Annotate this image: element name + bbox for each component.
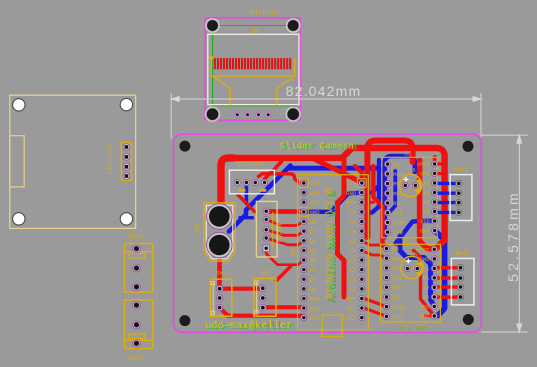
wire blue U2 inner	[388, 171, 396, 213]
svg-text:MS2: MS2	[393, 182, 403, 188]
wire red mid weave	[338, 160, 345, 297]
svg-text:5V: 5V	[349, 209, 356, 216]
svg-text:26.12.2025: 26.12.2025	[398, 326, 428, 332]
svg-text:D6: D6	[310, 257, 317, 264]
wire red U2 mid vertical second	[417, 160, 422, 172]
svg-text:DISPLEY: DISPLEY	[251, 10, 279, 17]
capacitor C U3 plus mark	[406, 259, 411, 264]
main board outline	[174, 134, 482, 332]
svg-text:U6: U6	[409, 168, 415, 174]
wire blue top bus	[288, 168, 385, 237]
wire blue U3 to U2 VDD	[396, 221, 435, 244]
left board mounting hole H3	[13, 213, 25, 225]
wire red VMOT stub	[433, 157, 437, 164]
svg-text:82.042mm: 82.042mm	[286, 83, 362, 99]
svg-text:STEP: STEP	[392, 305, 405, 311]
svg-text:MS1: MS1	[393, 172, 403, 178]
svg-text:A1: A1	[423, 181, 429, 187]
svg-text:SW2A: SW2A	[128, 355, 143, 362]
module U2 right pads	[432, 161, 438, 234]
main board mounting hole M3	[179, 315, 190, 326]
wire red top bus	[229, 148, 445, 248]
wire red A-pins to U3 upper	[362, 241, 387, 249]
svg-text:B2: B2	[423, 210, 429, 216]
module U1 right pin labels	[346, 180, 357, 322]
svg-text:D8: D8	[310, 276, 317, 283]
wire red DISPLEY1 to CN1	[221, 158, 233, 205]
svg-text:D9: D9	[310, 286, 317, 293]
module U2 left pin labels	[393, 162, 406, 236]
svg-text:DISPLEY2: DISPLEY2	[107, 143, 114, 174]
wire blue GND bus	[304, 186, 379, 212]
left board mounting hole H4	[120, 213, 132, 225]
module U1 GND pin square	[299, 207, 308, 216]
svg-text:MS1: MS1	[392, 256, 402, 262]
wire blue right vertical to MOT2 GND	[434, 230, 444, 316]
capacitor C U2 plus mark	[403, 177, 408, 182]
svg-text:B1: B1	[423, 191, 429, 197]
capacitor C U2 outline	[399, 174, 421, 196]
wire red SW1 pin1 to SW2 pin1	[221, 287, 263, 291]
svg-text:D13: D13	[346, 315, 356, 322]
svg-text:GND: GND	[310, 209, 321, 216]
wire red CN1 to SW1 pin1	[217, 258, 222, 288]
wire red bus to VIN diagonal	[312, 158, 362, 183]
svg-text:A1: A1	[423, 267, 429, 273]
wire red SW2 pin3 to D11	[264, 305, 304, 309]
display flex cable outline	[211, 59, 294, 105]
switch SW2A pads	[133, 301, 141, 347]
capacitor C U3 outline	[401, 256, 423, 278]
switch SW1A outline	[125, 244, 153, 293]
svg-text:GND: GND	[420, 172, 430, 178]
svg-text:EN: EN	[393, 162, 399, 168]
main board mounting hole M2	[463, 141, 474, 152]
capacitor C U3 pads	[404, 266, 420, 272]
display module green courtyard	[213, 26, 298, 106]
wire red DISPLEY1 diagonal	[238, 195, 255, 212]
svg-text:D12: D12	[310, 315, 320, 322]
wire blue fragment left of ENCODER	[240, 216, 253, 219]
svg-text:ENCODER: ENCODER	[277, 218, 284, 242]
svg-text:Slider Camera: Slider Camera	[279, 141, 354, 152]
svg-text:U3: U3	[402, 238, 410, 245]
svg-text:3V3: 3V3	[346, 305, 356, 312]
svg-text:D10: D10	[310, 296, 321, 303]
svg-text:RXD: RXD	[310, 190, 321, 197]
svg-text:MS3: MS3	[392, 276, 402, 282]
svg-text:U5: U5	[411, 252, 417, 258]
svg-text:SW1A: SW1A	[128, 234, 143, 241]
wire red SW2 corner diagonal	[276, 267, 290, 281]
wire blue DISPLEY1 pad2 stub	[245, 186, 249, 204]
module U1 left pads TXD-D12	[301, 180, 307, 321]
svg-text:GND: GND	[346, 190, 357, 197]
svg-text:MOT1: MOT1	[454, 166, 468, 173]
svg-text:A2: A2	[423, 286, 429, 292]
svg-text:RST: RST	[393, 201, 403, 207]
connector CN1 pad2	[207, 232, 233, 258]
wire blue bus to CN1 diagonal	[229, 166, 291, 232]
switch SW2 pads	[260, 285, 267, 311]
svg-text:VDD: VDD	[420, 305, 430, 311]
switch SW2A outline	[125, 300, 153, 349]
connector DISPLEY1 index marks	[239, 189, 267, 192]
svg-text:A7: A7	[349, 219, 356, 226]
module U2 outline	[382, 157, 437, 237]
wire red ENCODER pin4 to D4	[266, 238, 304, 245]
module U1 Arduino outline	[298, 175, 369, 330]
svg-text:A2: A2	[423, 200, 429, 206]
wire blue arch over U2	[385, 156, 415, 237]
svg-text:SLP: SLP	[392, 295, 402, 301]
svg-text:DISPLEY1: DISPLEY1	[238, 161, 266, 168]
module U3 outline	[381, 244, 441, 322]
dimension 82.042mm line	[171, 93, 481, 139]
capacitor C U2 pads	[402, 183, 418, 189]
svg-text:D5: D5	[310, 248, 317, 255]
module U1 right pads VIN-D13	[359, 180, 365, 321]
svg-text:A2: A2	[349, 267, 356, 274]
svg-text:DIR: DIR	[392, 315, 402, 321]
svg-text:SW2: SW2	[260, 269, 271, 276]
wire red SW1 pin3 to D12	[220, 308, 304, 316]
connector MOT1 pads	[456, 180, 462, 215]
module U3 right pin labels	[417, 248, 431, 321]
svg-text:U2: U2	[404, 151, 412, 158]
wire blue U3 inner loop	[400, 236, 434, 306]
module U1 pin1 square TXD	[299, 179, 308, 188]
module U3 left pads	[384, 246, 390, 320]
svg-text:VIN: VIN	[346, 180, 356, 187]
svg-text:A4: A4	[349, 248, 356, 255]
svg-text:D2: D2	[310, 219, 317, 226]
svg-text:GND: GND	[420, 229, 430, 235]
module U1 left pin labels	[310, 180, 321, 322]
module U3 left pin labels	[392, 247, 405, 321]
wire red col vertical right of U1	[373, 166, 386, 249]
wire blue MOT1 bars	[435, 183, 459, 212]
left board mounting hole H1	[13, 99, 25, 111]
svg-text:VDD: VDD	[420, 219, 430, 225]
svg-text:SW1: SW1	[216, 270, 227, 277]
wire red U2 GND stub	[435, 172, 445, 175]
wire red MOT2 bars	[436, 268, 460, 297]
wire blue col vertical to 5V	[362, 160, 379, 213]
svg-text:CN1: CN1	[194, 222, 201, 233]
svg-text:A6: A6	[349, 228, 356, 235]
display mounting pad bottom1	[206, 107, 220, 121]
wire red VIN corner	[355, 166, 362, 181]
svg-text:RST: RST	[346, 199, 357, 206]
connector CN1 pad1	[207, 204, 233, 230]
left board notch cutout	[10, 136, 24, 187]
svg-text:D4: D4	[310, 238, 317, 245]
connector ENCODER outline	[256, 201, 277, 257]
module U1 pin30 square VIN	[357, 179, 366, 188]
display red segment bars	[214, 58, 291, 69]
connector DISPLEY2 pins 1-4	[123, 144, 130, 180]
wire red ENCODER pin3 to D3	[266, 230, 304, 236]
connector MOT2 pads	[457, 265, 463, 301]
svg-text:REF: REF	[346, 296, 356, 303]
svg-text:GND: GND	[420, 314, 430, 320]
wire red DISPLEY1 pad4 to bus	[265, 162, 282, 180]
display mounting pad bottom2	[286, 107, 300, 121]
main board mounting hole M4	[463, 314, 474, 325]
connector MOT2 outline	[451, 258, 474, 305]
display glass outline U4	[208, 34, 299, 104]
svg-text:A5: A5	[349, 238, 356, 245]
left board mounting hole H2	[120, 98, 132, 110]
svg-text:U1: U1	[291, 249, 297, 255]
wire red U2 inner vertical	[420, 160, 435, 249]
wire red RST stub	[362, 201, 374, 204]
svg-text:STEP: STEP	[393, 221, 406, 227]
svg-text:udo—max@keller: udo—max@keller	[205, 320, 292, 332]
switch SW1 pads	[216, 285, 223, 311]
svg-text:A1: A1	[349, 276, 356, 283]
svg-text:TXD: TXD	[310, 180, 321, 187]
connector MOT1 outline	[450, 175, 472, 221]
switch SW2 outline	[254, 279, 276, 317]
display mounting hole top1	[206, 19, 219, 32]
wire red U3 GND stub	[425, 314, 434, 317]
module U2 right pin labels	[417, 162, 431, 235]
module U3 right pads	[431, 246, 437, 319]
main board mounting hole M1	[179, 141, 190, 152]
module U2 left pads	[385, 161, 391, 235]
connector ENCODER pads	[263, 208, 270, 251]
svg-text:A3: A3	[349, 257, 356, 264]
connector DISPLEY1 outline	[229, 170, 274, 194]
wire red ENCODER pin5 down	[266, 248, 304, 265]
svg-text:RST: RST	[392, 286, 402, 292]
svg-text:RST: RST	[310, 199, 321, 206]
svg-text:DIR: DIR	[393, 230, 403, 236]
wire red D-pins to U3 STEP DIR	[364, 298, 387, 306]
svg-text:52.578mm: 52.578mm	[505, 190, 521, 282]
connector CN1 body	[204, 203, 235, 261]
connector DISPLEY1 pads	[234, 179, 268, 185]
svg-text:EN: EN	[392, 247, 398, 253]
svg-text:VMOT: VMOT	[417, 162, 431, 168]
svg-text:VMOT: VMOT	[417, 248, 431, 254]
dimension 52.578mm line	[481, 135, 527, 332]
display origin dot	[209, 56, 213, 60]
wire red ENCODER pin2 to D2	[266, 220, 304, 226]
display module board outline	[205, 18, 300, 120]
wire red U3 cap loop	[414, 251, 435, 316]
svg-text:A0: A0	[349, 286, 356, 293]
svg-text:D7: D7	[310, 267, 317, 274]
svg-text:Arduino Nano V3.0: Arduino Nano V3.0	[325, 187, 337, 299]
svg-text:D3: D3	[310, 228, 317, 235]
connector DISPLEY2 outline	[121, 143, 131, 181]
svg-text:B1: B1	[423, 276, 429, 282]
svg-text:MOT2: MOT2	[456, 250, 470, 257]
display bottom pin pads	[235, 112, 271, 117]
switch SW1 outline	[210, 279, 231, 316]
switch SW1A pads	[133, 245, 141, 291]
module U1 USB connector outline	[322, 315, 342, 336]
wire red DISPLEY1 pad3 to TXD	[259, 174, 300, 183]
svg-text:SLP: SLP	[393, 211, 403, 217]
board SLIDER outline (left module)	[10, 95, 136, 228]
display mounting hole top2	[287, 19, 300, 32]
wire red ENCODER pin1 to GND	[266, 209, 304, 214]
svg-text:B2: B2	[423, 295, 429, 301]
wire red outer arch	[367, 141, 412, 238]
svg-text:D11: D11	[310, 305, 321, 312]
